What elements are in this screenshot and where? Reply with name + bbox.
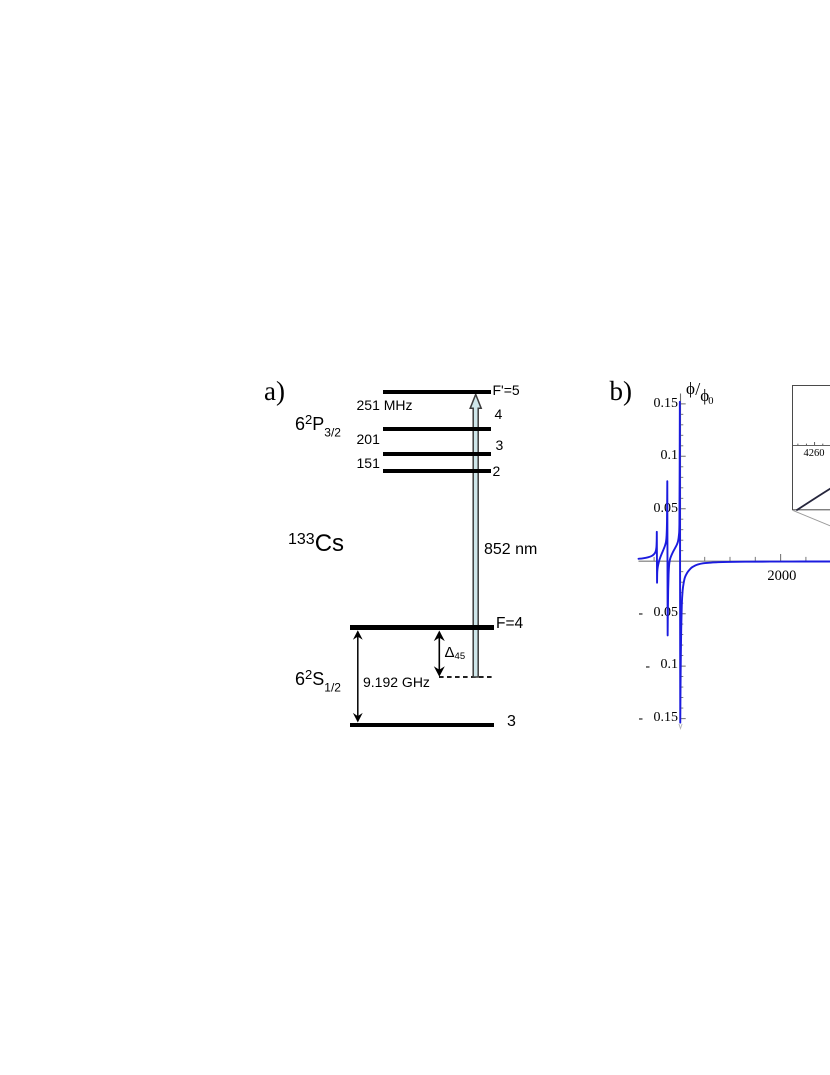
9.192 GHz arrowhead bottom bbox=[353, 713, 363, 723]
plot x major tick 2000 bbox=[780, 554, 782, 561]
ylabel 0.05 bbox=[631, 502, 678, 516]
level F'=3 bbox=[383, 452, 491, 456]
inset label 4260 bbox=[804, 449, 825, 460]
ylabel 0.1 bbox=[631, 449, 678, 463]
ylabel -0.05 minus bbox=[639, 606, 644, 620]
9.192 GHz arrowhead top bbox=[353, 630, 363, 640]
inset major tick 4260 bbox=[814, 442, 816, 445]
label 9.192 GHz bbox=[363, 675, 430, 689]
laser arrow 852 nm bbox=[470, 394, 481, 677]
ylabel -0.15 minus bbox=[639, 711, 644, 725]
label phi/phi0 first phi bbox=[686, 380, 695, 397]
label a) bbox=[264, 378, 285, 405]
level F=3 ground bbox=[350, 723, 494, 728]
plot y minor ticks bbox=[681, 414, 684, 708]
level F'=4 bbox=[383, 427, 491, 431]
label 151 bbox=[357, 456, 380, 470]
level F'=5 bbox=[383, 390, 491, 394]
ylabel -0.05 bbox=[631, 606, 678, 620]
label phi/phi0 slash bbox=[695, 380, 700, 398]
label F'=5 bbox=[493, 383, 520, 397]
inset ticks bbox=[798, 444, 823, 446]
label 4 bbox=[495, 407, 503, 421]
plot x minor ticks bbox=[654, 557, 806, 561]
Delta45 arrowhead top bbox=[434, 631, 445, 642]
ylabel 0.15 bbox=[631, 397, 678, 411]
plot y major ticks bbox=[681, 404, 686, 719]
label 201 bbox=[357, 432, 380, 446]
Delta45 double arrow line bbox=[438, 632, 440, 675]
y axis end arrow bbox=[679, 724, 682, 729]
label 251 MHz bbox=[357, 398, 413, 412]
9.192 GHz double arrow line bbox=[357, 632, 359, 722]
inset x axis bbox=[793, 444, 830, 446]
label Delta45 bbox=[445, 645, 466, 662]
label 2 bbox=[493, 464, 501, 478]
plot y axis bbox=[680, 394, 682, 724]
xlabel 2000 bbox=[767, 569, 796, 584]
label phi/phi0 sub 0 bbox=[708, 397, 713, 408]
label 3 bbox=[496, 438, 504, 452]
label phi/phi0 second phi bbox=[700, 387, 709, 404]
label 133Cs bbox=[288, 532, 344, 556]
label b) bbox=[610, 378, 633, 405]
dispersion backbone curve bbox=[639, 402, 830, 723]
level F'=2 bbox=[383, 469, 491, 473]
dashed virtual level line bbox=[439, 676, 495, 678]
label 6^2 P 3/2 bbox=[295, 413, 341, 439]
inset box bbox=[793, 386, 830, 510]
label 6^2 S 1/2 bbox=[295, 668, 341, 694]
ylabel -0.15 bbox=[631, 711, 678, 725]
ylabel -0.1 bbox=[631, 658, 678, 672]
level F=4 bbox=[350, 625, 494, 630]
ylabel -0.1 minus bbox=[646, 659, 651, 673]
label ground 3 bbox=[507, 714, 516, 730]
plot x axis bbox=[639, 560, 830, 562]
inset curve bbox=[796, 488, 830, 510]
label 852 nm bbox=[484, 542, 537, 558]
inset callout line bbox=[793, 511, 830, 527]
label F=4 bbox=[496, 616, 523, 632]
Delta45 arrowhead bottom bbox=[434, 666, 445, 677]
